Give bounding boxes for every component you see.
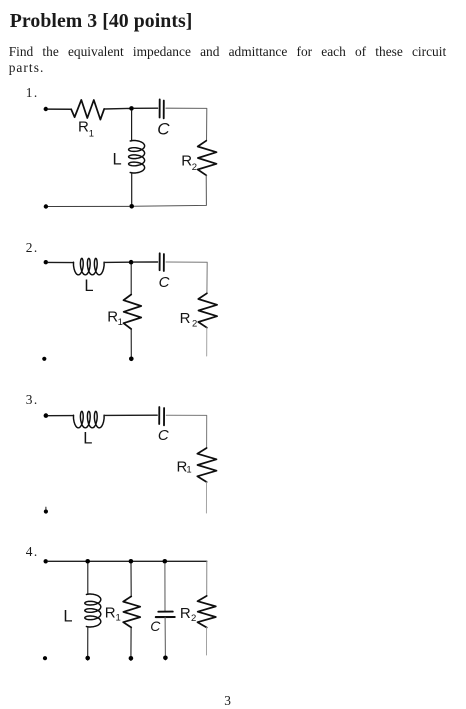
capacitor C (left plate): [158, 407, 160, 424]
svg-text:R: R: [180, 605, 191, 622]
svg-text:L: L: [63, 608, 72, 626]
capacitor C (bottom plate): [156, 616, 175, 618]
label L: [113, 150, 122, 168]
circuit 2 figure: [42, 253, 217, 361]
wire: R1 to node A: [104, 107, 131, 110]
capacitor C (left plate): [159, 253, 161, 270]
node: input terminal top-left: [44, 413, 49, 418]
node: input terminal top-left: [44, 260, 48, 264]
label R2: [180, 605, 196, 624]
label C: [158, 427, 169, 444]
wire: R1 to open end bottom-right: [205, 482, 207, 513]
wire: terminal to L: [48, 261, 74, 263]
resistor R1: [124, 295, 142, 330]
node: open terminal bottom-left: [43, 656, 47, 660]
wire: R2 down to bottom-right corner: [134, 175, 207, 206]
resistor R2: [198, 596, 216, 628]
node: open terminal bottom-left: [44, 509, 48, 513]
label R1: [177, 458, 192, 475]
svg-text:R: R: [180, 310, 191, 327]
wire: top bus down to L: [87, 564, 89, 595]
svg-text:L: L: [83, 429, 92, 447]
wire: C down to bottom terminal: [164, 617, 166, 660]
svg-text:L: L: [84, 277, 93, 295]
node: bottom terminal of C branch: [163, 656, 168, 661]
resistor R1: [197, 448, 216, 482]
node: bottom terminal of L branch: [85, 656, 90, 661]
wire: R1 down to bottom terminal: [130, 329, 132, 359]
svg-text:1: 1: [89, 129, 94, 140]
wire: node A down to inductor L: [131, 111, 133, 141]
wire: node A to capacitor C: [133, 261, 157, 263]
page number 3: [220, 693, 236, 709]
label R2: [180, 310, 198, 330]
resistor R2: [198, 293, 217, 327]
svg-text:1: 1: [116, 613, 121, 624]
label R1: [78, 119, 94, 140]
wire: terminal to L: [48, 415, 73, 417]
node: junction of C branch: [163, 559, 168, 564]
item number 2.: [0, 240, 39, 256]
wire: node A to capacitor C: [134, 107, 158, 109]
node: junction of R1 branch: [129, 559, 134, 564]
body paragraph line 1 (justified): [9, 44, 447, 60]
label R1: [107, 309, 123, 329]
svg-text:2: 2: [192, 162, 197, 173]
node: bottom terminal of R1 branch: [129, 656, 134, 661]
wire: bottom-left terminal to node B: [48, 205, 129, 207]
circuit 3 figure: [44, 407, 217, 514]
svg-text:C: C: [150, 618, 161, 634]
wire: top bus down to R1: [130, 564, 132, 597]
svg-text:1: 1: [118, 317, 123, 328]
svg-text:2: 2: [191, 613, 196, 624]
svg-text:C: C: [158, 427, 169, 444]
inductor L: [85, 594, 101, 627]
node: input terminal bottom-left: [44, 204, 48, 208]
capacitor C (left plate): [159, 99, 161, 117]
label C: [157, 120, 170, 139]
label R2: [181, 153, 197, 173]
wire: capacitor to top-right corner and down to R2: [166, 262, 207, 293]
label L: [84, 277, 93, 295]
svg-text:C: C: [159, 274, 170, 291]
wire: top bus: [48, 560, 207, 562]
inductor L: [74, 411, 105, 427]
circuit 1 figure: [44, 99, 217, 208]
wire: L to capacitor C: [104, 414, 157, 416]
item number 1.: [0, 85, 39, 101]
wire: capacitor to top-right corner and down to R1: [166, 415, 207, 448]
capacitor C (right plate): [163, 101, 165, 119]
svg-text:R: R: [105, 605, 116, 622]
label L: [83, 429, 92, 447]
svg-text:R: R: [78, 119, 89, 136]
wire: L to node A: [104, 261, 131, 263]
body paragraph line 2: [9, 60, 45, 76]
capacitor C (right plate): [163, 408, 165, 425]
svg-text:2: 2: [192, 318, 197, 329]
capacitor C (right plate): [163, 254, 165, 271]
resistor R2: [198, 141, 217, 176]
node A: junction of R1, L, C: [129, 106, 134, 111]
wire: L down to bottom terminal: [87, 627, 89, 661]
wire: terminal to R1: [48, 108, 71, 110]
wire: node A down to R1: [130, 265, 132, 295]
inductor L: [129, 141, 145, 174]
label L: [63, 608, 72, 626]
node: open terminal bottom-left: [42, 357, 46, 361]
svg-text:1: 1: [186, 464, 191, 475]
capacitor C (top plate): [158, 611, 173, 613]
svg-text:R: R: [181, 153, 192, 170]
wire: capacitor to top-right corner and down to R2: [166, 108, 207, 141]
item number 3.: [0, 392, 39, 408]
wire: R2 to open end bottom-right: [206, 328, 208, 356]
wire: top bus down to R2: [206, 561, 208, 596]
title: Problem 3 [40 points]: [10, 10, 193, 33]
label C: [150, 618, 161, 634]
wire: L down to bottom node B: [131, 173, 133, 207]
wire: top bus down to C: [164, 564, 166, 612]
label R1: [105, 605, 121, 624]
svg-text:C: C: [157, 120, 170, 139]
wire: R1 down to bottom terminal: [130, 627, 132, 660]
node: bottom terminal of R1 branch: [129, 357, 134, 362]
resistor R1: [71, 100, 104, 120]
wire: R2 to open end bottom-right: [206, 628, 208, 656]
wire: stub above bottom-left terminal: [45, 507, 47, 509]
node A: junction of L, R1, C: [129, 260, 134, 265]
inductor L: [74, 258, 105, 274]
node B: bottom junction: [129, 204, 134, 209]
node: input terminal top-left: [44, 559, 48, 563]
node: input terminal top-left: [44, 107, 48, 111]
circuit 4 figure: [43, 559, 216, 661]
item number 4.: [0, 544, 39, 560]
node: junction of L branch: [85, 559, 90, 564]
resistor R1: [123, 596, 140, 627]
svg-text:L: L: [113, 150, 122, 168]
label C: [159, 274, 170, 291]
